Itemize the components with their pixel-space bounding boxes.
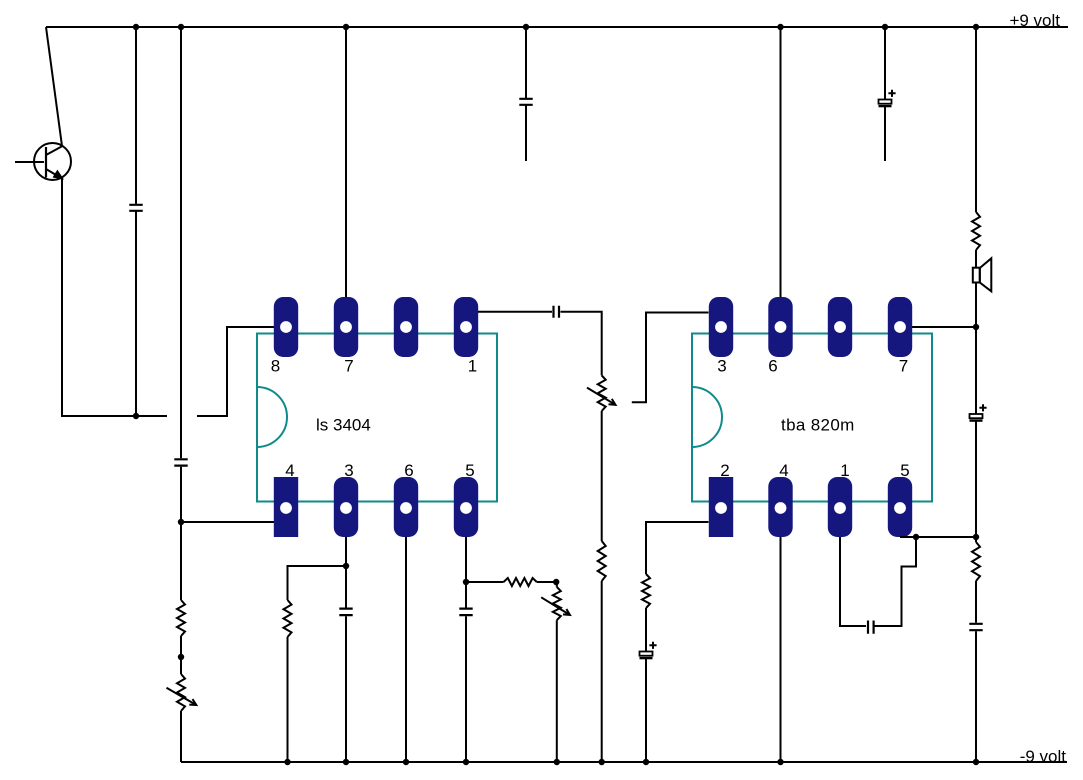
U2 pin 2 [709, 477, 733, 537]
wire Q1 base lead [15, 161, 44, 163]
capacitor C4 [554, 306, 560, 318]
wire C4 to VR3 top [561, 312, 602, 376]
node C8/pin5 junction [973, 534, 979, 540]
wire VR1 to -9V rail [180, 711, 182, 762]
capacitor C1 [129, 205, 142, 211]
wire U2 pin4 to -9V rail [780, 537, 782, 762]
wire R2 to -9V rail [287, 637, 289, 762]
wire R3 to VR2 [537, 582, 557, 587]
node C6 rail junction [463, 759, 469, 765]
wire -9V power rail [181, 761, 1067, 763]
svg-text:1: 1 [468, 357, 477, 376]
wire C9 to -9V rail [975, 631, 977, 762]
svg-text:4: 4 [285, 461, 294, 480]
U1 pin 6 [394, 477, 418, 537]
svg-text:6: 6 [404, 461, 413, 480]
op-amp U1 ls3404 outline [257, 334, 497, 502]
node VR2 rail junction [554, 759, 560, 765]
svg-text:8: 8 [271, 357, 280, 376]
potentiometer VR3 element [598, 375, 606, 411]
wire U1 pin6 to -9V rail [405, 537, 407, 762]
amplifier U2 notch [692, 387, 722, 447]
U2 pin 6 [768, 297, 792, 357]
node pin5/C11 junction [913, 534, 919, 540]
node C1 top rail junction [133, 24, 139, 30]
capacitor C10 electrolytic [640, 652, 653, 656]
node speaker branch rail junction [973, 24, 979, 30]
node R4 rail junction [599, 759, 605, 765]
wire U1 pin1 to C4 [478, 311, 552, 313]
svg-text:3: 3 [344, 461, 353, 480]
U2 pin top-3rd [828, 297, 852, 357]
wire U2 pin6 to +9V rail [780, 27, 782, 297]
wire C7 stub upper [884, 27, 886, 100]
potentiometer VR3 arrow [587, 388, 616, 405]
U1 pin 3 [334, 477, 358, 537]
U1 pin 5 [454, 477, 478, 537]
wire U2 pin1 feedback run [840, 537, 866, 626]
U1 pin 1 [454, 297, 478, 357]
wire R4 to -9V rail [601, 581, 603, 762]
capacitor C7 electrolytic [879, 100, 892, 104]
svg-text:3: 3 [717, 357, 726, 376]
wire U1 pin7 to +9V rail [345, 27, 347, 297]
capacitor C6 [459, 609, 472, 616]
resistor R2 [284, 600, 292, 637]
wire Q1 collector to +9V rail [46, 27, 62, 146]
node R2 rail junction [284, 759, 290, 765]
wire C1 branch lower [135, 211, 137, 416]
svg-text:4: 4 [779, 461, 788, 480]
transistor Q1 body circle [34, 143, 71, 180]
svg-text:7: 7 [899, 357, 908, 376]
wire +9V power rail [46, 26, 1068, 28]
U1 pin top-3rd [394, 297, 418, 357]
U2 pin 4 [768, 477, 792, 537]
wire C7 stub lower open end [884, 107, 886, 161]
wire R6 to speaker [975, 250, 977, 268]
svg-text:ls 3404: ls 3404 [316, 416, 371, 435]
potentiometer VR2 arrow [541, 597, 570, 615]
wire C3 stub lower open end [525, 105, 527, 161]
wire C3 stub upper [525, 27, 527, 98]
U1 pin 4 [274, 477, 298, 537]
wire to U1 pin 4 [181, 521, 274, 523]
U1 pin 7 [334, 297, 358, 357]
node junction emitter/C1 [133, 413, 139, 419]
node speaker/pin7 junction [973, 324, 979, 330]
amplifier U2 tba820m outline [692, 334, 932, 502]
wire C10 to -9V rail [645, 659, 647, 763]
wire speaker to pin7 node [975, 283, 977, 328]
capacitor C11 [868, 621, 874, 634]
node x181 top rail junction [178, 24, 184, 30]
transistor Q1 emitter stroke [46, 169, 62, 179]
node U2 pin6 rail junction [777, 24, 783, 30]
U2 pin 3 [709, 297, 733, 357]
svg-text:7: 7 [344, 357, 353, 376]
wire C1 branch upper [135, 27, 137, 204]
node pin4 junction [178, 519, 184, 525]
wire C6 to -9V rail [465, 616, 467, 762]
node C5 rail junction [343, 759, 349, 765]
wire pin3 branch left [288, 566, 347, 600]
node C9 rail junction [973, 759, 979, 765]
node pin5 branch junction [463, 579, 469, 585]
wire C2 to pin4 node [180, 467, 182, 522]
U2 pin 5 [888, 477, 912, 537]
node pin3 branch junction [343, 563, 349, 569]
capacitor C3 [519, 99, 532, 105]
node C7 rail junction [882, 24, 888, 30]
wire pin4 node down to R1 [180, 522, 182, 600]
svg-text:tba 820m: tba 820m [781, 416, 855, 435]
wire U2 pin2 left and down [646, 522, 709, 574]
resistor R7 [972, 542, 980, 581]
wire U1 pin5 down [465, 537, 467, 608]
wire U2 pin5 to speaker branch [900, 536, 976, 538]
wire C5 to -9V rail [345, 616, 347, 762]
wire R5 to C10 [645, 608, 647, 651]
svg-text:1: 1 [840, 461, 849, 480]
transistor Q1 emitter arrowhead [54, 171, 63, 178]
svg-text:6: 6 [768, 357, 777, 376]
wire C11 up to pin5 node [875, 537, 917, 626]
resistor R6 [972, 212, 980, 250]
wire C8 to pin5 node [975, 421, 977, 537]
wire left rail x181 upper [180, 27, 182, 458]
svg-text:2: 2 [720, 461, 729, 480]
potentiometer VR2 element [553, 587, 561, 620]
node R3/VR2 junction [553, 579, 559, 585]
wire U2 pin7 to node [912, 326, 976, 328]
speaker LS1 magnet box [973, 268, 980, 283]
svg-text:-9 volt: -9 volt [1020, 747, 1067, 766]
node U2 pin4 rail junction [777, 759, 783, 765]
node C10 rail junction [643, 759, 649, 765]
capacitor C9 [969, 624, 982, 630]
resistor R1 [177, 600, 185, 636]
wire R1 to VR1 [180, 636, 182, 674]
wire +9V rail to R6 [975, 27, 977, 212]
capacitor C5 [339, 609, 352, 616]
capacitor C8 electrolytic [970, 414, 983, 418]
capacitor C2 [174, 459, 187, 465]
wire node A continues to pin8 riser (after crossover gap) [197, 327, 274, 416]
node R1/VR1 junction [178, 654, 184, 660]
U1 pin 8 [274, 297, 298, 357]
wire Q1 emitter down and right to node A [62, 179, 167, 417]
svg-text:+9 volt: +9 volt [1009, 11, 1060, 30]
wire node down to C8 [975, 327, 977, 414]
U2 pin 7 [888, 297, 912, 357]
node pin7 rail junction [343, 24, 349, 30]
resistor R5 [642, 574, 650, 608]
wire U1 pin3 down [345, 537, 347, 608]
wire VR3 to R4 [601, 411, 603, 541]
op-amp U1 notch [257, 387, 287, 447]
transistor Q1 base bar [45, 147, 47, 178]
wire pin5 branch to R3 [466, 581, 504, 583]
node C3 rail junction [523, 24, 529, 30]
wire VR2 to -9V rail [556, 620, 558, 762]
resistor R4 [598, 541, 606, 581]
resistor R3 [504, 578, 537, 586]
speaker LS1 cone [980, 258, 992, 291]
transistor Q1 collector stroke [46, 146, 63, 155]
potentiometer VR1 element [177, 674, 185, 711]
svg-text:5: 5 [465, 461, 474, 480]
wire VR3 wiper elbow to U2 pin3 [632, 313, 709, 403]
node pin6 rail junction [403, 759, 409, 765]
wire R7 to C9 [975, 581, 977, 623]
U2 pin 1 [828, 477, 852, 537]
potentiometer VR1 arrow [167, 688, 197, 705]
svg-text:5: 5 [900, 461, 909, 480]
wire pin5 node to R7 [975, 537, 977, 542]
